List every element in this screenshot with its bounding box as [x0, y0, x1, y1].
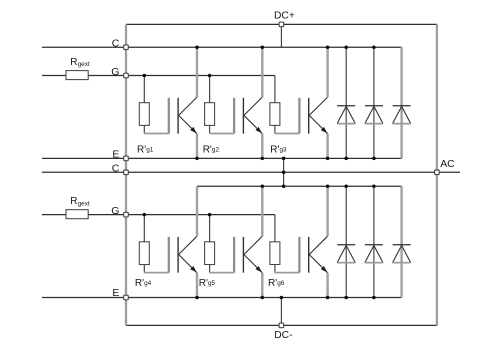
svg-text:g1: g1	[146, 147, 154, 154]
wire T1 emitter to rail	[196, 134, 198, 159]
wire T1 collector to rail	[196, 47, 198, 97]
diode D5 (freewheeling)	[365, 186, 383, 297]
svg-text:R': R'	[137, 144, 146, 155]
junction D1 cathode on collector rail	[344, 45, 348, 49]
wire T6 collector to rail	[326, 186, 328, 236]
junction gate branch 5 on gate rail	[208, 213, 212, 217]
junction D5 anode on emitter rail	[372, 296, 376, 300]
wire DC+ drop	[280, 27, 282, 48]
svg-text:AC: AC	[440, 159, 455, 170]
terminal AC	[435, 170, 440, 175]
wire DC- riser	[280, 298, 282, 324]
resistor Rgext (lower) with value label	[66, 196, 90, 219]
wire T2 emitter to rail	[261, 134, 263, 159]
resistor R'g3	[270, 76, 280, 134]
value label R'g6	[268, 278, 285, 289]
wire gate loop bottom (R'g3 to gate)	[275, 133, 300, 135]
junction T1 collector on rail	[195, 45, 199, 49]
svg-text:DC+: DC+	[274, 10, 295, 21]
svg-text:g6: g6	[277, 280, 285, 287]
svg-text:R': R'	[135, 278, 144, 289]
svg-text:G: G	[111, 66, 119, 78]
wire T2 collector to rail	[261, 47, 263, 97]
diode D4 (freewheeling)	[337, 186, 355, 297]
junction T5 collector on rail	[261, 185, 265, 189]
value label R'g5	[199, 278, 216, 289]
wire gate loop bottom (R'g1 to gate)	[144, 133, 169, 135]
svg-text:C: C	[112, 38, 120, 50]
transistor T2 (IGBT 2)	[234, 97, 262, 134]
resistor Rgext (upper) with value label	[66, 57, 90, 80]
svg-text:DC-: DC-	[274, 330, 292, 341]
transistor T3 (IGBT 3)	[299, 97, 327, 134]
svg-text:G: G	[111, 205, 119, 217]
module outline right edge	[436, 24, 438, 325]
value label R'g1	[137, 144, 154, 155]
wire T5 collector to rail	[261, 186, 263, 236]
value label R'g3	[270, 144, 287, 155]
junction D2 anode on emitter rail	[372, 157, 376, 161]
svg-text:R': R'	[268, 278, 277, 289]
svg-text:R': R'	[203, 144, 212, 155]
wire T6 emitter to rail	[326, 273, 328, 298]
wire E2 lead and emitter rail (bottom)	[42, 297, 402, 299]
wire T3 emitter to rail	[326, 134, 328, 159]
resistor R'g6	[270, 215, 280, 273]
junction mid connector on E1 rail	[282, 157, 286, 161]
junction D4 anode on emitter rail	[344, 296, 348, 300]
terminal G (lower gate)	[124, 212, 129, 217]
module outline left edge	[125, 24, 127, 325]
junction T4 emitter on rail	[195, 296, 199, 300]
terminal E (upper emitter)	[124, 156, 129, 161]
junction mid connector on AC line	[282, 171, 286, 175]
junction T2 collector on rail	[261, 45, 265, 49]
svg-text:g5: g5	[208, 280, 216, 287]
junction T3 collector on rail	[326, 45, 330, 49]
junction D2 cathode on collector rail	[372, 45, 376, 49]
svg-text:R': R'	[199, 278, 208, 289]
junction T1 emitter on rail	[195, 157, 199, 161]
terminal G (upper gate)	[124, 73, 129, 78]
terminal C (upper collector)	[124, 45, 129, 50]
svg-text:R': R'	[270, 144, 279, 155]
resistor R'g1	[139, 76, 149, 134]
wire gate loop bottom (R'g4 to gate)	[144, 272, 169, 274]
wire T5 emitter to rail	[261, 273, 263, 298]
wire T3 collector to rail	[326, 47, 328, 97]
junction mid connector on C2 rail	[282, 185, 286, 189]
resistor R'g5	[205, 215, 215, 273]
junction D1 anode on emitter rail	[344, 157, 348, 161]
wire E1 lead and emitter rail (top)	[42, 157, 402, 159]
junction T6 collector on rail	[326, 185, 330, 189]
svg-text:gext: gext	[78, 200, 90, 207]
wire gate loop bottom (R'g6 to gate)	[275, 272, 300, 274]
junction T5 emitter on rail	[261, 296, 265, 300]
junction DC- riser on emitter rail	[280, 296, 284, 300]
wire gate loop bottom (R'g2 to gate)	[210, 133, 235, 135]
svg-text:gext: gext	[78, 61, 90, 68]
junction T3 emitter on rail	[326, 157, 330, 161]
svg-text:C: C	[112, 163, 120, 175]
value label R'g2	[203, 144, 220, 155]
wire collector rail (bottom)	[197, 185, 402, 187]
wire C2 lead / AC node line	[42, 171, 460, 173]
svg-text:g2: g2	[212, 147, 220, 154]
wire G2 lead and gate rail (bottom)	[42, 214, 275, 216]
wire G1 lead and gate rail (top)	[42, 75, 275, 77]
module outline top edge	[126, 23, 437, 25]
diode D3 (freewheeling)	[393, 47, 411, 158]
junction gate branch 4 on gate rail	[143, 213, 147, 217]
resistor R'g2	[205, 76, 215, 134]
terminal C (lower collector)	[124, 170, 129, 175]
junction gate branch 2 on gate rail	[208, 74, 212, 78]
junction gate branch 1 on gate rail	[143, 74, 147, 78]
diode D1 (freewheeling)	[337, 47, 355, 158]
svg-text:R: R	[70, 196, 77, 207]
transistor T6 (IGBT 6)	[299, 236, 327, 273]
transistor T4 (IGBT 4)	[169, 236, 197, 273]
value label R'g4	[135, 278, 152, 289]
svg-text:E: E	[112, 149, 119, 161]
transistor T1 (IGBT 1)	[169, 97, 197, 134]
junction D4 cathode on collector rail	[344, 185, 348, 189]
diode D6 (freewheeling)	[393, 186, 411, 297]
wire T4 collector to rail	[196, 186, 198, 236]
junction T2 emitter on rail	[261, 157, 265, 161]
module outline bottom edge	[126, 324, 437, 326]
wire C1 lead and collector rail (top)	[42, 46, 402, 48]
terminal DC+	[279, 22, 284, 27]
wire AC mid connector	[283, 158, 285, 186]
diode D2 (freewheeling)	[365, 47, 383, 158]
terminal E (lower emitter)	[124, 295, 129, 300]
transistor T5 (IGBT 5)	[234, 236, 262, 273]
svg-text:E: E	[112, 287, 119, 299]
svg-text:R: R	[70, 57, 77, 68]
svg-text:g3: g3	[280, 147, 288, 154]
junction D5 cathode on collector rail	[372, 185, 376, 189]
resistor R'g4	[139, 215, 149, 273]
terminal DC-	[279, 323, 284, 328]
svg-text:g4: g4	[144, 280, 152, 287]
wire gate loop bottom (R'g5 to gate)	[210, 272, 235, 274]
wire T4 emitter to rail	[196, 273, 198, 298]
junction T6 emitter on rail	[326, 296, 330, 300]
